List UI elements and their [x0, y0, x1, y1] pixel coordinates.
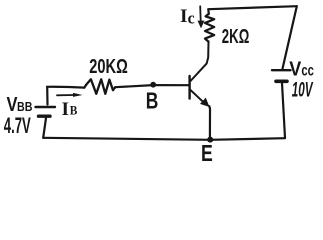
wire resistor top to corner	[207, 9, 210, 14]
wire bottom rail	[43, 138, 285, 140]
value label 2KΩ	[222, 25, 250, 48]
label 10V	[292, 78, 314, 102]
label 4.7V	[4, 113, 31, 138]
wire emitter down to node E	[208, 106, 211, 139]
label IB	[62, 99, 78, 120]
svg-text:E: E	[201, 140, 213, 163]
wire top rail	[208, 6, 296, 9]
node E label	[201, 140, 213, 166]
resistor R 20KΩ zigzag	[84, 79, 115, 94]
svg-text:20KΩ: 20KΩ	[89, 56, 128, 78]
wire base-left horizontal from VBB corner to resistor	[47, 86, 84, 89]
wire right side lower	[282, 83, 285, 138]
svg-text:4.7V: 4.7V	[4, 113, 31, 138]
transistor Q1 collector lead	[191, 42, 209, 81]
svg-text:BB: BB	[17, 99, 32, 114]
svg-text:2KΩ: 2KΩ	[222, 25, 250, 48]
value label 20KΩ	[89, 56, 128, 78]
svg-text:10V: 10V	[292, 78, 314, 102]
svg-text:B: B	[146, 88, 159, 114]
svg-text:c: c	[188, 8, 195, 27]
transistor Q1 emitter lead with arrow	[190, 90, 209, 107]
label IC	[180, 6, 195, 28]
resistor RC 2KΩ vertical zigzag	[205, 14, 214, 42]
battery VCC negative short plate	[276, 80, 287, 84]
wire left side upper	[46, 87, 48, 105]
node B junction dot	[150, 82, 156, 88]
svg-text:B: B	[70, 102, 78, 117]
label VBB	[7, 93, 33, 116]
current arrow IB	[57, 93, 83, 97]
transistor Q1 base bar	[188, 76, 190, 99]
node B label	[146, 88, 159, 114]
wire left side lower	[43, 118, 46, 138]
wire right side upper (slanted)	[283, 6, 297, 69]
current arrow IC	[198, 6, 205, 28]
node E junction dot	[207, 137, 213, 143]
battery VBB negative short plate	[39, 114, 51, 117]
svg-text:I: I	[62, 99, 70, 120]
battery VCC positive long plate	[272, 69, 291, 71]
label VCC	[289, 58, 314, 81]
wire resistor to base bar through node B	[115, 85, 189, 87]
svg-text:I: I	[180, 6, 188, 27]
battery VBB positive long plate	[36, 106, 56, 108]
